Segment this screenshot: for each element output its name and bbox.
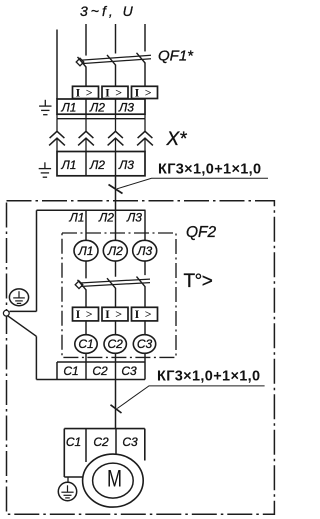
- svg-text:QF1*: QF1*: [158, 47, 194, 64]
- svg-text:Л2: Л2: [98, 211, 114, 225]
- svg-text:I >: I >: [105, 307, 123, 321]
- svg-text:С1: С1: [66, 435, 81, 449]
- svg-text:I >: I >: [76, 307, 94, 321]
- svg-text:T°>: T°>: [184, 271, 213, 292]
- svg-text:Л2: Л2: [89, 101, 105, 115]
- svg-text:3~f, U: 3~f, U: [80, 3, 136, 19]
- svg-text:Л3: Л3: [118, 158, 134, 172]
- svg-text:КГ3×1,0+1×1,0: КГ3×1,0+1×1,0: [158, 162, 261, 178]
- svg-text:Л2: Л2: [89, 158, 105, 172]
- svg-text:С3: С3: [122, 435, 138, 449]
- svg-text:Л3: Л3: [118, 101, 134, 115]
- svg-text:С3: С3: [121, 364, 137, 378]
- svg-text:М: М: [107, 465, 122, 492]
- svg-text:I >: I >: [135, 85, 153, 99]
- svg-text:I >: I >: [105, 85, 123, 99]
- svg-text:Л2: Л2: [107, 244, 123, 258]
- svg-text:Л1: Л1: [78, 244, 94, 258]
- svg-text:X*: X*: [166, 129, 188, 150]
- svg-text:С1: С1: [63, 364, 78, 378]
- svg-text:I >: I >: [135, 307, 153, 321]
- svg-text:КГ3×1,0+1×1,0: КГ3×1,0+1×1,0: [157, 369, 260, 385]
- svg-text:QF2: QF2: [186, 224, 217, 241]
- svg-text:Л3: Л3: [136, 244, 152, 258]
- svg-text:С2: С2: [93, 435, 109, 449]
- svg-text:I >: I >: [76, 85, 94, 99]
- svg-text:С2: С2: [108, 337, 124, 351]
- svg-text:Л3: Л3: [126, 211, 142, 225]
- svg-text:Л1: Л1: [69, 211, 85, 225]
- svg-text:С1: С1: [78, 337, 93, 351]
- svg-text:Л1: Л1: [61, 158, 77, 172]
- svg-text:С3: С3: [137, 337, 153, 351]
- svg-text:С2: С2: [92, 364, 108, 378]
- svg-text:Л1: Л1: [61, 101, 77, 115]
